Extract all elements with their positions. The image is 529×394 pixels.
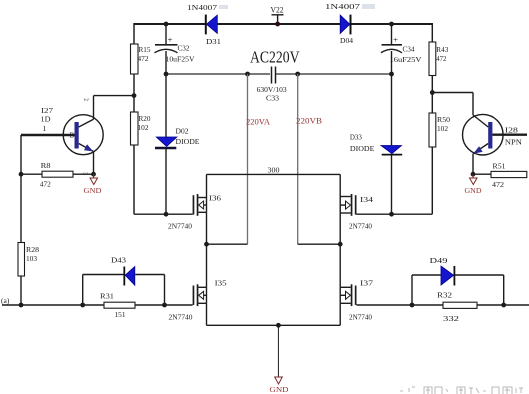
resistor R32: [412, 291, 529, 324]
power net V22: [271, 5, 284, 27]
mosfet I35: [169, 244, 228, 325]
svg-text:DIODE: DIODE: [350, 144, 375, 153]
wire collector tap to right transistor: [432, 93, 473, 116]
node collector junction: [132, 93, 137, 98]
svg-text:472: 472: [40, 180, 51, 189]
wire R15 to R20: [133, 74, 135, 112]
svg-text:D04: D04: [340, 36, 353, 45]
wire bottom-left from node a: [2, 304, 104, 306]
wire horizontal into gate node: [134, 213, 166, 215]
diode D04: [325, 2, 360, 45]
wire GND drop: [277, 325, 279, 377]
svg-text:I28: I28: [505, 126, 518, 135]
svg-text:D33: D33: [350, 133, 362, 142]
wire R20 down to gate node: [133, 145, 135, 214]
capacitor C32: [155, 24, 196, 74]
diode D31: [187, 3, 221, 46]
diode D49 bypass branch: [412, 256, 504, 305]
node bottom center junction: [276, 323, 281, 328]
svg-text:GND: GND: [270, 385, 290, 394]
svg-text:AC220V: AC220V: [250, 48, 300, 67]
wire R43 to R50: [431, 76, 433, 114]
svg-text:B: B: [70, 132, 75, 140]
svg-text:C32: C32: [178, 44, 190, 53]
wire left column top (rail to R15): [133, 23, 135, 44]
svg-text:D02: D02: [176, 127, 189, 136]
svg-text:+: +: [168, 36, 174, 45]
svg-text:332: 332: [443, 314, 460, 323]
svg-text:GND: GND: [465, 186, 483, 195]
svg-text:472: 472: [138, 54, 149, 63]
svg-text:2N7740: 2N7740: [349, 313, 372, 322]
resistor R50: [429, 113, 450, 147]
ground bottom: [270, 377, 290, 394]
node 220VA junction: [245, 72, 250, 77]
svg-text:D43: D43: [111, 256, 126, 265]
node R28 bottom junction: [19, 303, 24, 308]
svg-text:220VB: 220VB: [296, 117, 322, 126]
svg-text:R20: R20: [139, 114, 151, 123]
wire AC bus right (y=74): [276, 73, 392, 75]
node D43 branch right junction: [162, 303, 167, 308]
node (a) terminal: [1, 296, 10, 305]
svg-text:R8: R8: [41, 161, 51, 170]
svg-text:NPN: NPN: [505, 138, 523, 147]
transistor Q I28: [463, 114, 528, 174]
ground left: [84, 174, 103, 195]
svg-text:+: +: [393, 36, 399, 45]
wire collector tap left: [94, 95, 135, 97]
svg-text:R15: R15: [139, 45, 151, 54]
svg-text:D31: D31: [206, 37, 221, 46]
svg-text:R31: R31: [100, 292, 114, 301]
wire 300 bus: [207, 173, 341, 175]
node I36 source junction: [204, 242, 209, 247]
node right emitter junction: [471, 172, 476, 177]
svg-text:103: 103: [26, 254, 37, 263]
node C32/D02 junction: [164, 72, 169, 77]
transistor Q I27: [21, 96, 103, 176]
resistor R8: [21, 161, 94, 189]
resistor R43: [429, 42, 449, 76]
svg-text:1D: 1D: [41, 115, 52, 124]
svg-text:2N7740: 2N7740: [169, 313, 193, 322]
svg-text:102: 102: [138, 123, 149, 132]
wire I35 gate lead: [165, 304, 193, 306]
net label 300: [268, 166, 280, 175]
node D49 branch right junction: [501, 303, 506, 308]
svg-text:472: 472: [492, 180, 504, 189]
watermark near 1N4007 labels: [219, 4, 375, 9]
wire top rail right segment: [351, 23, 433, 25]
svg-text:2N7740: 2N7740: [349, 222, 372, 231]
svg-text:R32: R32: [437, 291, 452, 300]
diode D02: [155, 74, 200, 214]
svg-text:R51: R51: [493, 162, 506, 171]
resistor R20: [131, 112, 151, 145]
wire bottom rail: [207, 324, 341, 326]
svg-text:R50: R50: [437, 115, 450, 124]
wire I37 gate lead: [357, 304, 413, 306]
diode D33: [350, 74, 402, 214]
node right collector junction: [430, 90, 435, 95]
resistor R51: [473, 162, 527, 190]
svg-text:DIODE: DIODE: [176, 137, 201, 146]
svg-text:220VA: 220VA: [246, 118, 270, 127]
wire R50 down to I34 gate line: [431, 147, 433, 214]
mosfet I37: [340, 244, 373, 325]
resistor R15: [131, 44, 151, 74]
svg-text:I36: I36: [209, 194, 221, 203]
node C32 top junction: [164, 22, 169, 27]
node left emitter junction: [91, 172, 96, 177]
capacitor C33: [257, 67, 287, 103]
watermark bottom right: [400, 387, 523, 394]
svg-text:102: 102: [437, 124, 448, 133]
wire top rail middle segment: [218, 23, 341, 25]
wire top rail left segment: [134, 23, 205, 25]
svg-text:16uF25V: 16uF25V: [390, 55, 423, 64]
svg-text:I34: I34: [360, 195, 373, 204]
wire AC bus left (y=74): [166, 73, 270, 75]
svg-text:GND: GND: [84, 186, 103, 195]
node D43 branch left junction: [80, 303, 85, 308]
svg-text:C33: C33: [266, 94, 279, 103]
node I34 gate junction: [389, 212, 394, 217]
wire I34 gate lead: [357, 213, 433, 215]
svg-text:C34: C34: [403, 45, 415, 54]
svg-text:10uF25V: 10uF25V: [166, 55, 196, 64]
wire left base column: [20, 135, 22, 305]
node 220VB junction: [295, 72, 300, 77]
mosfet I34: [340, 174, 373, 244]
wire 220VA vertical: [247, 74, 249, 244]
svg-text:R43: R43: [436, 45, 448, 54]
resistor R28: [18, 243, 39, 277]
svg-text:R28: R28: [26, 245, 39, 254]
svg-text:1: 1: [43, 124, 47, 133]
diode D43 bypass branch: [83, 256, 165, 306]
node I36 gate junction: [164, 212, 169, 217]
svg-text:472: 472: [436, 54, 446, 63]
svg-text:1N4007: 1N4007: [187, 3, 217, 12]
svg-text:I35: I35: [215, 279, 227, 288]
wire 220VA corner to I36 source: [207, 243, 248, 245]
node I34 source junction: [338, 242, 343, 247]
node D49 branch left junction: [410, 303, 415, 308]
wire right column top (rail corner down to R43): [431, 23, 433, 42]
svg-text:I37: I37: [360, 279, 373, 288]
svg-text:V22: V22: [271, 5, 284, 15]
svg-text:151: 151: [115, 310, 126, 319]
net label 220VA: [246, 118, 270, 127]
wire 220VB corner to I34 source: [298, 243, 341, 245]
svg-text:2: 2: [82, 98, 88, 102]
wire I36 gate lead: [166, 213, 193, 215]
svg-text:630V/103: 630V/103: [257, 85, 287, 94]
svg-text:1N4007: 1N4007: [325, 2, 360, 11]
mosfet I36: [168, 174, 221, 244]
svg-text:300: 300: [268, 166, 280, 175]
svg-text:2N7740: 2N7740: [168, 222, 192, 231]
node R8 left junction: [19, 172, 24, 177]
wire 220VB vertical: [297, 74, 299, 244]
net label 220VB: [296, 117, 322, 126]
node C34/D33 junction: [389, 72, 394, 77]
capacitor C34: [381, 22, 422, 74]
svg-text:(a): (a): [1, 296, 10, 305]
resistor R31: [100, 292, 165, 320]
svg-text:D49: D49: [430, 256, 448, 265]
label AC220V: [250, 48, 300, 67]
ground right: [465, 174, 483, 195]
